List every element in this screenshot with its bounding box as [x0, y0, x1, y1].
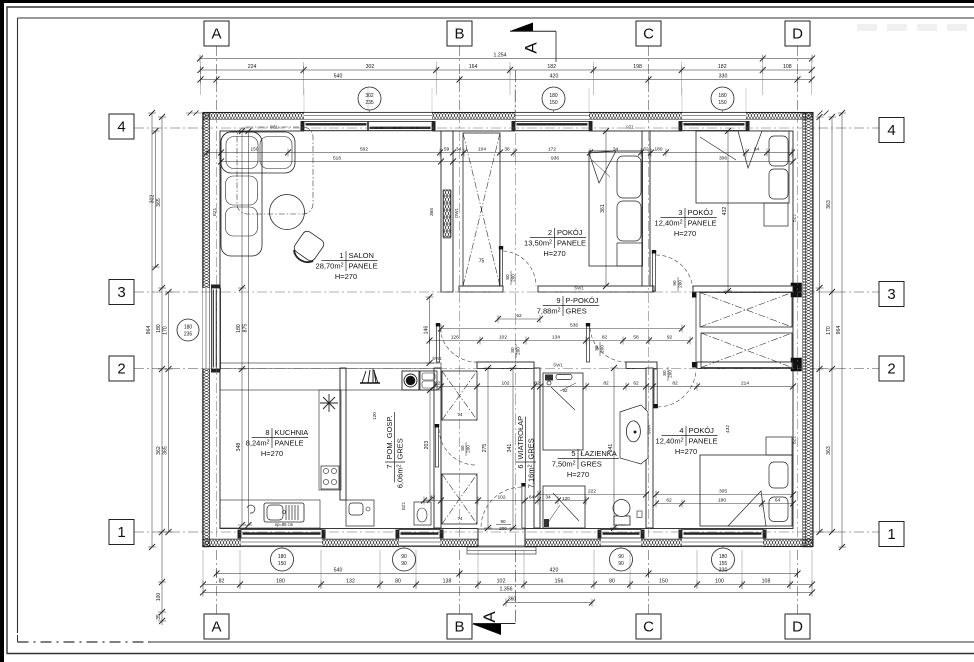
- svg-text:62: 62: [516, 313, 522, 319]
- svg-text:2: 2: [117, 361, 125, 378]
- svg-text:D: D: [792, 26, 803, 43]
- svg-text:182: 182: [718, 64, 727, 70]
- svg-text:90: 90: [618, 561, 624, 567]
- svg-text:GRES: GRES: [396, 438, 405, 459]
- svg-text:92: 92: [667, 335, 673, 341]
- svg-text:58: 58: [633, 335, 639, 341]
- svg-text:POKÓJ: POKÓJ: [557, 228, 583, 237]
- svg-text:180: 180: [236, 324, 242, 333]
- svg-text:203: 203: [424, 441, 430, 450]
- svg-text:82: 82: [219, 579, 225, 585]
- svg-text:4: 4: [117, 119, 125, 136]
- svg-text:9Z1: 9Z1: [270, 125, 278, 130]
- svg-text:936: 936: [551, 156, 559, 162]
- svg-text:H=270: H=270: [675, 447, 697, 456]
- svg-text:306: 306: [719, 156, 727, 162]
- svg-text:7,50m2: 7,50m2: [552, 460, 576, 469]
- svg-text:GRES: GRES: [566, 307, 587, 316]
- svg-text:90: 90: [401, 561, 407, 567]
- svg-text:80: 80: [510, 347, 515, 353]
- svg-text:365: 365: [429, 208, 435, 216]
- svg-text:362: 362: [156, 446, 162, 455]
- svg-text:432: 432: [722, 207, 728, 216]
- svg-text:1.356: 1.356: [500, 587, 513, 593]
- svg-text:146: 146: [424, 326, 430, 335]
- svg-text:182: 182: [547, 64, 556, 70]
- svg-text:302: 302: [150, 195, 156, 204]
- svg-text:104: 104: [478, 147, 486, 153]
- svg-text:ŚW1: ŚW1: [432, 354, 442, 361]
- svg-text:92: 92: [562, 388, 568, 393]
- svg-text:62: 62: [666, 498, 672, 504]
- svg-text:170: 170: [826, 326, 832, 335]
- svg-text:100: 100: [715, 579, 724, 585]
- svg-text:180: 180: [549, 93, 558, 99]
- svg-text:H=270: H=270: [674, 229, 696, 238]
- svg-text:A: A: [522, 42, 541, 54]
- svg-text:1: 1: [887, 526, 895, 543]
- svg-text:GRES: GRES: [527, 438, 536, 459]
- svg-text:341: 341: [608, 444, 614, 453]
- svg-text:ŚW1: ŚW1: [553, 361, 563, 368]
- svg-text:82: 82: [534, 381, 540, 387]
- svg-text:875: 875: [243, 324, 249, 333]
- svg-text:420: 420: [550, 568, 559, 574]
- svg-text:365: 365: [163, 446, 169, 455]
- svg-text:C: C: [643, 26, 654, 43]
- svg-text:74: 74: [457, 412, 463, 417]
- svg-text:180: 180: [184, 325, 193, 331]
- svg-text:PANELE: PANELE: [275, 439, 304, 448]
- svg-text:365: 365: [156, 198, 162, 207]
- svg-text:120: 120: [562, 496, 570, 501]
- svg-text:KUCHNIA: KUCHNIA: [275, 428, 309, 437]
- svg-text:7: 7: [385, 465, 394, 469]
- svg-text:6,06m2: 6,06m2: [396, 464, 405, 488]
- svg-text:3: 3: [117, 284, 125, 301]
- svg-text:150: 150: [549, 100, 558, 106]
- svg-text:180: 180: [718, 498, 726, 504]
- svg-text:150: 150: [250, 147, 258, 153]
- svg-text:BZ1: BZ1: [792, 213, 797, 222]
- svg-text:H=270: H=270: [261, 449, 283, 458]
- svg-text:3: 3: [678, 208, 682, 217]
- svg-text:150: 150: [718, 100, 727, 106]
- svg-text:BZ1: BZ1: [401, 501, 406, 510]
- svg-text:540: 540: [334, 74, 343, 80]
- svg-text:34: 34: [456, 147, 462, 153]
- svg-text:235: 235: [365, 100, 374, 106]
- svg-text:516: 516: [333, 156, 341, 162]
- svg-text:180: 180: [654, 147, 662, 153]
- svg-text:75: 75: [479, 259, 485, 265]
- svg-text:80: 80: [662, 370, 667, 376]
- svg-text:9: 9: [556, 296, 560, 305]
- svg-text:302: 302: [366, 64, 375, 70]
- svg-text:ŚW4: ŚW4: [645, 425, 652, 435]
- svg-text:B: B: [454, 26, 464, 43]
- svg-text:38: 38: [504, 147, 510, 153]
- svg-text:102: 102: [497, 495, 505, 501]
- svg-text:35: 35: [156, 614, 162, 620]
- svg-text:PANELE: PANELE: [689, 437, 718, 446]
- svg-text:PANELE: PANELE: [557, 239, 586, 248]
- svg-text:A: A: [211, 619, 221, 636]
- svg-text:74: 74: [457, 516, 463, 521]
- svg-text:C: C: [643, 619, 654, 636]
- svg-text:224: 224: [248, 64, 257, 70]
- svg-text:126: 126: [451, 335, 459, 341]
- svg-text:SALON: SALON: [349, 251, 374, 260]
- svg-text:4: 4: [887, 122, 895, 139]
- svg-text:363: 363: [826, 446, 832, 455]
- svg-text:363: 363: [826, 200, 832, 209]
- svg-text:34: 34: [613, 147, 619, 153]
- svg-text:108: 108: [762, 579, 771, 585]
- svg-text:198: 198: [633, 64, 642, 70]
- svg-text:102: 102: [499, 335, 507, 341]
- svg-text:2: 2: [548, 228, 552, 237]
- svg-text:134: 134: [552, 335, 560, 341]
- svg-text:540: 540: [334, 568, 343, 574]
- svg-text:80: 80: [460, 445, 465, 451]
- svg-text:12,40m2: 12,40m2: [656, 437, 684, 446]
- svg-text:13,50m2: 13,50m2: [524, 239, 552, 248]
- svg-text:275: 275: [482, 444, 488, 453]
- svg-text:H=270: H=270: [567, 470, 589, 479]
- svg-text:WIATROŁAP: WIATROŁAP: [516, 416, 525, 460]
- svg-text:1: 1: [117, 524, 125, 541]
- svg-text:BZ1: BZ1: [792, 435, 797, 444]
- svg-text:A: A: [211, 26, 221, 43]
- svg-text:8,24m2: 8,24m2: [246, 439, 270, 448]
- svg-text:POKÓJ: POKÓJ: [689, 426, 715, 435]
- svg-text:DW1: DW1: [454, 208, 459, 218]
- svg-text:150: 150: [659, 579, 668, 585]
- svg-text:180: 180: [718, 93, 727, 99]
- svg-text:1.254: 1.254: [494, 53, 507, 59]
- svg-text:80: 80: [505, 274, 510, 280]
- svg-text:360: 360: [508, 597, 517, 603]
- svg-text:156: 156: [555, 579, 564, 585]
- svg-text:80: 80: [594, 345, 599, 351]
- svg-text:502: 502: [360, 147, 368, 153]
- svg-text:1: 1: [339, 251, 343, 260]
- svg-text:62: 62: [633, 381, 639, 387]
- svg-text:536: 536: [570, 323, 578, 329]
- svg-text:341: 341: [507, 444, 513, 453]
- svg-text:82: 82: [603, 381, 609, 387]
- svg-text:132: 132: [346, 579, 355, 585]
- svg-text:28,70m2: 28,70m2: [316, 262, 344, 271]
- svg-text:348: 348: [236, 443, 242, 452]
- svg-text:964: 964: [836, 326, 842, 335]
- svg-text:4: 4: [679, 426, 683, 435]
- svg-text:82: 82: [435, 381, 441, 387]
- svg-text:120: 120: [372, 412, 377, 420]
- svg-text:np=85 cm: np=85 cm: [275, 522, 294, 527]
- svg-text:180: 180: [719, 554, 728, 560]
- svg-text:82: 82: [672, 381, 678, 387]
- svg-text:164: 164: [469, 64, 478, 70]
- svg-text:64: 64: [775, 498, 781, 504]
- svg-text:5: 5: [571, 449, 575, 458]
- svg-text:150: 150: [278, 561, 287, 567]
- svg-text:90: 90: [500, 519, 506, 524]
- svg-text:12,40m2: 12,40m2: [655, 219, 683, 228]
- svg-text:172: 172: [548, 147, 556, 153]
- svg-text:361: 361: [600, 204, 606, 213]
- svg-text:80: 80: [609, 579, 615, 585]
- svg-text:302: 302: [365, 93, 374, 99]
- svg-text:POM. GOSP.: POM. GOSP.: [385, 415, 394, 459]
- svg-text:214: 214: [741, 381, 749, 387]
- svg-text:432: 432: [725, 425, 731, 433]
- svg-text:100: 100: [156, 593, 162, 602]
- svg-text:90: 90: [401, 554, 407, 560]
- svg-text:H=270: H=270: [543, 249, 565, 258]
- svg-text:222: 222: [588, 489, 596, 495]
- svg-text:108: 108: [783, 64, 792, 70]
- svg-text:2: 2: [887, 361, 895, 378]
- svg-text:138: 138: [443, 579, 452, 585]
- svg-text:34: 34: [545, 495, 551, 501]
- svg-text:235: 235: [184, 332, 193, 338]
- svg-text:964: 964: [146, 326, 152, 335]
- svg-text:170: 170: [163, 326, 169, 335]
- svg-text:200: 200: [499, 526, 507, 531]
- svg-text:62: 62: [643, 147, 649, 153]
- svg-text:180: 180: [276, 579, 285, 585]
- svg-text:7,16m2: 7,16m2: [527, 464, 536, 488]
- svg-text:102: 102: [497, 579, 506, 585]
- svg-text:82: 82: [602, 335, 608, 341]
- svg-text:PANELE: PANELE: [349, 262, 378, 271]
- svg-text:BZ1: BZ1: [212, 207, 217, 216]
- svg-text:7,88m2: 7,88m2: [537, 307, 561, 316]
- svg-text:64: 64: [754, 147, 760, 153]
- svg-text:ŚW1: ŚW1: [574, 284, 584, 291]
- svg-text:305: 305: [719, 489, 727, 495]
- svg-text:180: 180: [278, 554, 287, 560]
- svg-text:9Z1: 9Z1: [626, 125, 634, 130]
- svg-text:H=270: H=270: [335, 272, 357, 281]
- svg-text:64: 64: [529, 495, 535, 501]
- svg-text:90: 90: [618, 554, 624, 560]
- svg-text:420: 420: [550, 74, 559, 80]
- svg-text:80: 80: [395, 579, 401, 585]
- svg-text:180: 180: [156, 324, 162, 333]
- svg-text:155: 155: [719, 561, 728, 567]
- svg-text:3: 3: [887, 286, 895, 303]
- svg-text:330: 330: [719, 74, 728, 80]
- svg-text:P-POKÓJ: P-POKÓJ: [566, 296, 599, 305]
- svg-text:A: A: [480, 611, 499, 623]
- svg-text:POKÓJ: POKÓJ: [688, 208, 714, 217]
- svg-text:B: B: [454, 619, 464, 636]
- svg-text:D: D: [792, 619, 803, 636]
- svg-text:8: 8: [265, 428, 269, 437]
- svg-text:102: 102: [501, 381, 509, 387]
- svg-text:6: 6: [516, 465, 525, 469]
- svg-text:59: 59: [444, 147, 450, 153]
- svg-text:PANELE: PANELE: [688, 219, 717, 228]
- svg-text:90: 90: [672, 280, 677, 286]
- svg-text:GRES: GRES: [581, 460, 602, 469]
